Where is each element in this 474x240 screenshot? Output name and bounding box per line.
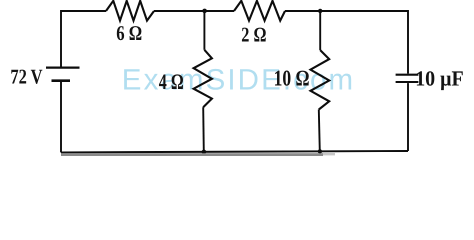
resistor R4 10 ohm — [311, 50, 330, 109]
resistor R2 2 ohm — [234, 1, 285, 21]
capacitor C1 10 uF top plate — [396, 74, 419, 76]
resistor R3 4 ohm — [194, 50, 212, 107]
wire bottom rail — [61, 151, 408, 152]
svg-text:10 μF: 10 μF — [415, 66, 464, 90]
resistor R1 6 ohm — [106, 1, 154, 21]
wire capacitor bottom segment — [407, 83, 409, 151]
wire top middle segment (R1 to R2) — [154, 10, 234, 12]
wire top right segment (R2 to capacitor branch) — [285, 11, 408, 74]
svg-text:ExamSIDE.com: ExamSIDE.com — [122, 64, 355, 97]
wire branch R3 bottom — [202, 107, 205, 152]
svg-text:4 Ω: 4 Ω — [159, 69, 184, 94]
junction dot top node C — [318, 9, 322, 13]
battery V1 72 V negative plate — [52, 79, 71, 82]
wire branch R4 top — [319, 11, 321, 50]
svg-text:10 Ω: 10 Ω — [274, 65, 310, 90]
wire branch R3 top — [203, 11, 205, 50]
junction dot top node B — [202, 9, 207, 14]
bottom rail shadow — [61, 153, 323, 156]
svg-text:6 Ω: 6 Ω — [116, 21, 142, 45]
wire branch R4 bottom — [319, 110, 320, 152]
wire top-left segment (node A to R1) — [61, 11, 106, 67]
wire left bottom segment (battery to bottom rail) — [60, 82, 62, 152]
junction dot bottom node B' — [202, 150, 207, 155]
svg-text:72 V: 72 V — [10, 65, 42, 89]
battery V1 72 V positive plate — [46, 66, 80, 68]
junction dot bottom node C' — [318, 149, 322, 153]
svg-text:2 Ω: 2 Ω — [241, 22, 266, 46]
watermark ExamSIDE.com — [122, 64, 355, 97]
capacitor C1 10 uF bottom plate — [396, 81, 419, 83]
